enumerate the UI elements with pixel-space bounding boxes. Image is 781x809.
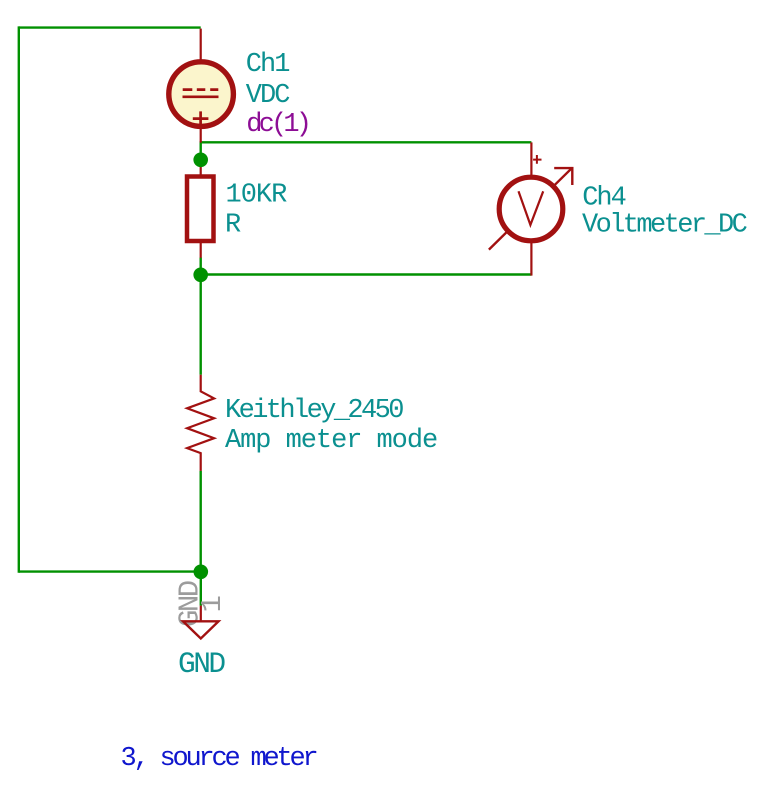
ground pin [200,606,202,622]
voltage source V1 pin bottom [200,124,202,143]
voltmeter needle diagonal [489,168,572,250]
wire node B to voltmeter bottom [201,273,532,275]
wire left vertical [18,26,20,572]
wire node C to ground [200,572,202,606]
ground triangle [183,621,219,638]
junction node C [194,565,209,580]
svg-text:Ch1: Ch1 [246,50,289,80]
voltmeter U1 pin bottom [530,241,532,276]
voltage source V1 body [169,62,234,127]
svg-text:10KR: 10KR [226,181,288,211]
voltage source V1 pin top [200,29,202,62]
voltmeter needle arrowhead [554,168,572,185]
voltmeter U1 pin top [530,142,532,177]
wire node A vertical [199,141,201,160]
resistor R1 pin top [200,160,202,176]
svg-text:R: R [225,211,241,241]
wire node A to voltmeter top [201,141,532,143]
wire top horizontal [19,26,201,28]
voltmeter plus mark [533,155,541,164]
junction node A [193,153,208,168]
svg-text:Voltmeter_DC: Voltmeter_DC [582,211,748,241]
voltmeter V glyph [519,191,544,225]
voltage source dashed line [183,88,219,91]
svg-text:GND: GND [178,647,225,681]
svg-text:3, source meter: 3, source meter [121,744,317,774]
svg-text:Ch4: Ch4 [582,184,625,214]
resistor R1 pin bottom [200,242,202,258]
wire resistor bottom to node B [199,258,201,275]
svg-text:Amp meter mode: Amp meter mode [225,426,437,456]
junction node B [193,268,208,283]
svg-text:Keithley_2450: Keithley_2450 [225,396,403,426]
wire bottom horizontal [19,570,201,572]
voltage source plus sign [193,111,209,126]
wire node B to ammeter resistor [199,275,201,375]
ammeter resistor body zigzag [187,375,214,471]
resistor R1 body [187,177,214,242]
svg-text:dc(1): dc(1) [246,110,308,140]
voltmeter U1 body [499,177,563,241]
svg-text:VDC: VDC [246,81,290,111]
wire ammeter resistor to node C [199,471,201,572]
svg-text:1: 1 [196,597,229,613]
voltage source solid line [183,95,219,98]
